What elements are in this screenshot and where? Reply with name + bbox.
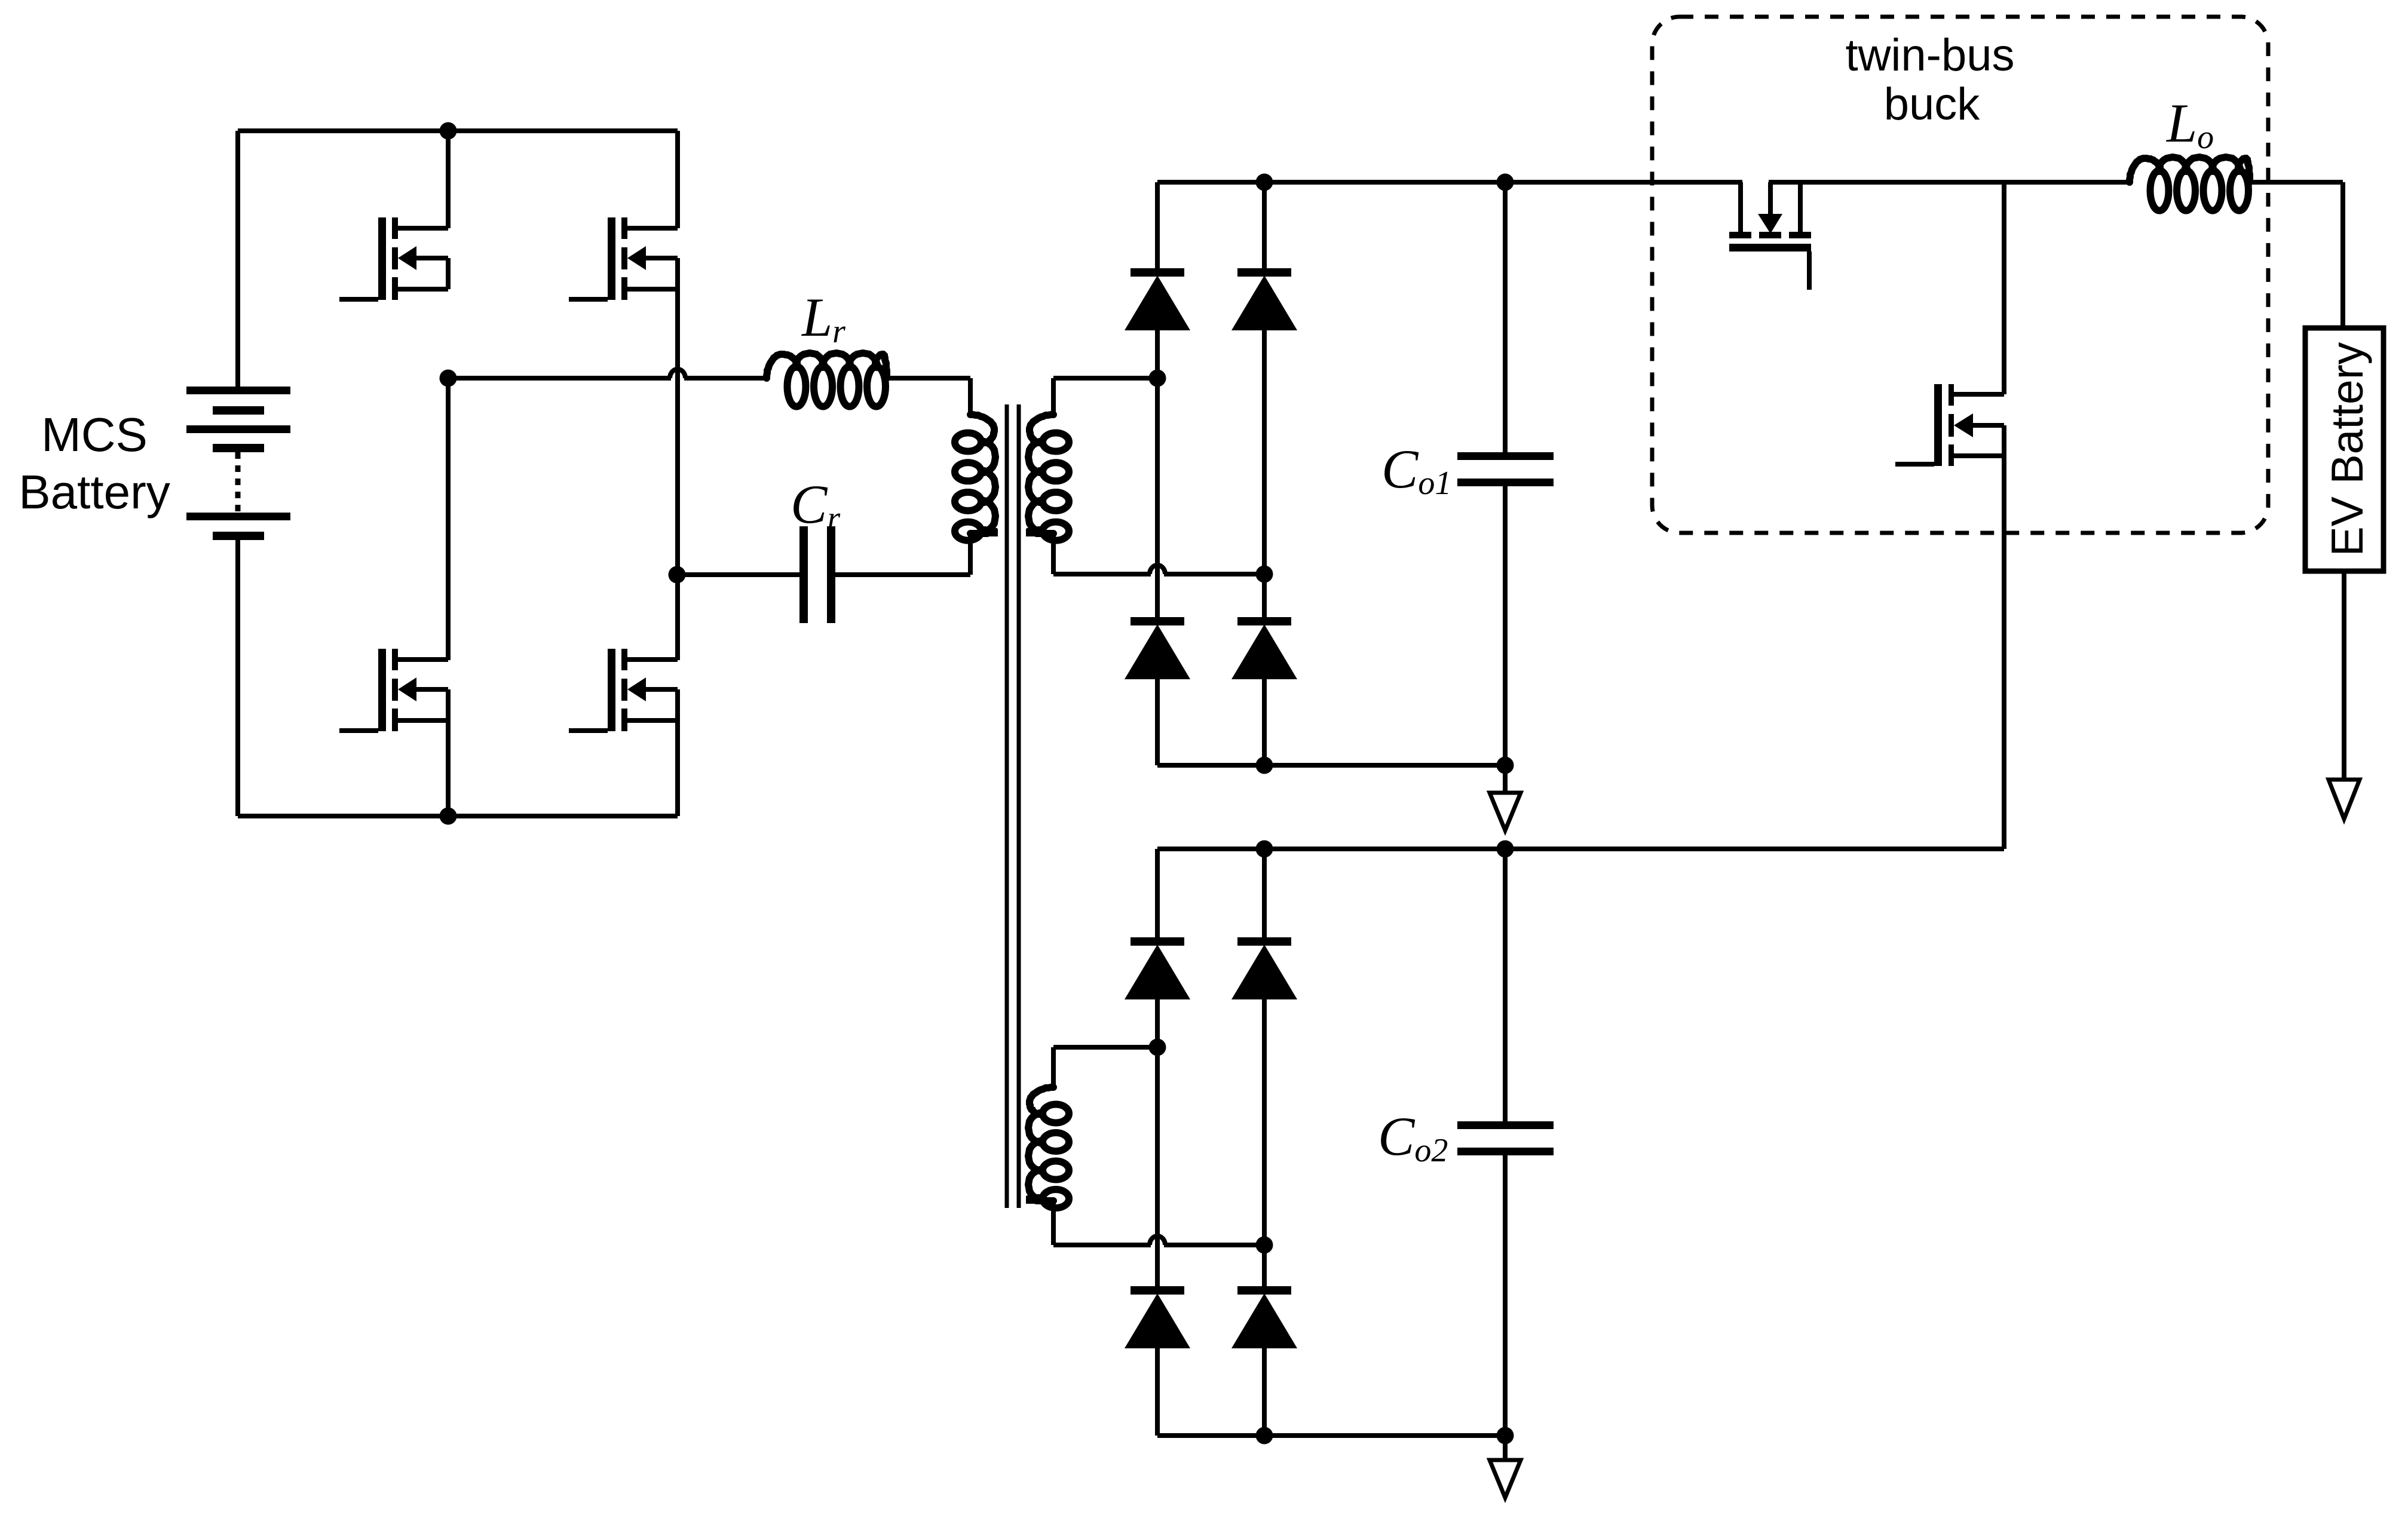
- svg-text:MCS: MCS: [41, 408, 148, 461]
- svg-text:EV Battery: EV Battery: [2322, 342, 2372, 556]
- svg-text:Battery: Battery: [19, 465, 170, 519]
- svg-text:buck: buck: [1884, 79, 1981, 130]
- svg-text:twin-bus: twin-bus: [1846, 30, 2015, 81]
